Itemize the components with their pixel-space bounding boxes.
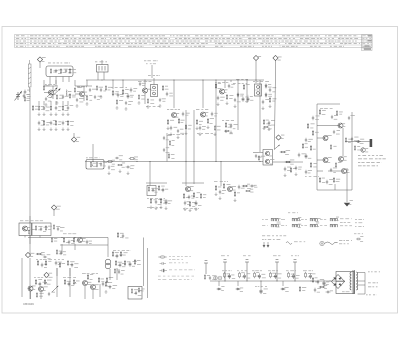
wire (43, 80, 45, 86)
wire (144, 80, 146, 88)
transistor Q17 (82, 281, 87, 286)
wire (282, 281, 284, 286)
bus (power distribution) (210, 280, 345, 282)
resistor R29 (226, 94, 228, 100)
junction (255, 79, 256, 80)
wire (336, 281, 345, 283)
junction (112, 79, 113, 80)
capacitor C3 (23, 94, 26, 99)
resistor R21 (162, 85, 164, 91)
switch legend text (340, 218, 344, 221)
junction (173, 79, 174, 80)
switch contacts S1b row A (292, 218, 299, 221)
wire (43, 101, 45, 105)
component values (82, 272, 86, 275)
title block row text (58, 42, 62, 45)
test point TP4 (71, 137, 76, 142)
transistor Q9 (output 1) (338, 123, 343, 128)
wire (84, 286, 86, 299)
title block row text (338, 37, 340, 40)
Q1 label (45, 83, 47, 86)
component values (147, 206, 150, 209)
wire (69, 268, 71, 297)
component values (34, 276, 36, 279)
capacitor C1 (55, 69, 57, 73)
wire (364, 273, 366, 295)
note: output stage text (358, 154, 360, 157)
test point TP3 (273, 55, 278, 60)
title block row text (230, 35, 232, 38)
resistor R110 (114, 268, 115, 274)
capacitor C40 (255, 154, 257, 158)
resistor R88 (239, 272, 241, 278)
transistor Q16 (38, 287, 43, 292)
wire (109, 269, 111, 280)
capacitor C41 (284, 167, 286, 172)
ground (76, 104, 79, 107)
wire (75, 93, 79, 95)
title block row text (30, 40, 32, 43)
legend text line 3 (169, 269, 172, 272)
component values (233, 82, 236, 85)
switch contacts S1c row A (310, 218, 317, 221)
wire (273, 161, 304, 163)
capacitor C73 (129, 262, 132, 267)
transistor Q7 (AF preamp) (185, 187, 190, 192)
capacitor C76 (243, 273, 246, 278)
title block row text (16, 35, 19, 38)
capacitor C111 (109, 285, 111, 289)
wire (317, 159, 323, 161)
title block row text (66, 45, 68, 48)
ground (219, 197, 222, 200)
resistor R46 (160, 198, 162, 204)
capacitor C31 (247, 97, 250, 102)
ground (344, 203, 349, 206)
resistor R113 (168, 153, 169, 159)
wire (38, 101, 40, 105)
resistor R87 (224, 272, 226, 278)
capacitor C7 (62, 95, 64, 99)
wire (29, 216, 31, 223)
wire (67, 101, 69, 105)
title block row text (95, 45, 97, 48)
wire (55, 77, 57, 85)
transistor Q15 (28, 286, 33, 291)
transistor Q6 (limiter) (219, 89, 224, 94)
capacitor C30 (242, 97, 245, 102)
wire (103, 72, 105, 80)
capacitor C72 (119, 263, 121, 268)
resistor R91 (288, 272, 290, 278)
component values (146, 105, 148, 108)
wire (185, 110, 187, 162)
title block row text (195, 35, 198, 38)
switch contacts S1d row B (330, 224, 337, 227)
capacitor C37 (115, 157, 119, 159)
wire (253, 151, 263, 153)
wire (259, 80, 261, 152)
wire (149, 162, 151, 186)
wire (74, 80, 76, 86)
ground (147, 105, 150, 108)
rectifier box (336, 272, 354, 294)
junction (224, 280, 225, 281)
ground (185, 132, 188, 135)
capacitor C16 (127, 94, 130, 99)
ground (268, 128, 271, 131)
switch legend title (288, 212, 290, 215)
capacitor C48 (195, 201, 198, 206)
wire (345, 141, 370, 143)
wire (107, 238, 109, 258)
resistor R70 (37, 260, 39, 266)
wire (amp right rail) (351, 112, 353, 190)
ground (43, 113, 46, 116)
capacitor C65 (55, 261, 57, 266)
resistor R27 (214, 125, 215, 131)
switch label (262, 224, 265, 227)
mains label (339, 239, 342, 242)
resistor R74 (35, 279, 37, 285)
resistor R102 (73, 237, 75, 243)
capacitor C84 (317, 280, 319, 285)
ground (230, 131, 233, 134)
junction (246, 79, 247, 80)
capacitor C33 (262, 100, 264, 105)
switch label (262, 218, 264, 221)
arrow symbol (263, 242, 269, 247)
resistor R5 (56, 94, 57, 100)
values (252, 270, 254, 273)
resistor R39 (129, 158, 135, 160)
wire (52, 86, 54, 91)
resistor R42 (285, 161, 291, 163)
ground (119, 170, 122, 173)
wire (62, 77, 64, 83)
transistor Q4 (IF amp 2) (171, 113, 176, 118)
switch contacts S1c row B (310, 224, 317, 227)
title block row text (16, 40, 19, 43)
ground (62, 128, 65, 131)
title block row text (64, 40, 67, 43)
diode D2 (265, 84, 267, 89)
component values (236, 78, 240, 81)
capacitor C23 (182, 112, 184, 117)
resistor R95 (312, 277, 314, 283)
bus (audio signal line) (85, 161, 263, 163)
resistor R15 (32, 105, 34, 111)
ground (215, 193, 218, 196)
capacitor C11 (38, 121, 40, 126)
driver box (32, 223, 51, 236)
mains plug P1 (320, 241, 324, 245)
resistor R17 (122, 89, 124, 95)
resistor R13 (55, 120, 57, 126)
wire (101, 60, 103, 65)
title block row text (248, 37, 252, 40)
ground (62, 113, 65, 116)
component values (183, 207, 185, 210)
wire (52, 95, 54, 100)
ground (125, 107, 128, 110)
capacitor C104 (57, 227, 59, 231)
resistor R19 (138, 94, 139, 100)
junction (202, 79, 203, 80)
wire (39, 236, 41, 238)
preamp pair box (263, 150, 273, 166)
capacitor C62 (40, 227, 42, 231)
resistor R66 (28, 230, 29, 235)
capacitor C113 (163, 148, 165, 152)
values (303, 270, 307, 273)
title block row text (282, 45, 285, 48)
wire (317, 189, 352, 191)
wire (317, 137, 323, 139)
capacitor C105 (122, 234, 124, 239)
resistor R78 (106, 277, 108, 283)
capacitor C77 (258, 273, 261, 278)
legend text line 1b (169, 258, 171, 261)
ground (234, 105, 237, 108)
wire (220, 162, 222, 187)
title block row text (175, 37, 177, 40)
IF alignment note (144, 60, 146, 63)
ground (55, 113, 58, 116)
capacitor C50 (238, 185, 240, 190)
resistor R83 (124, 260, 126, 266)
potentiometer VR2 (44, 279, 47, 285)
resistor R30 (243, 84, 245, 90)
title block row text (16, 45, 18, 48)
ground (263, 127, 266, 130)
resistor R85 (131, 288, 132, 294)
module U1 label (48, 62, 51, 65)
capacitor C4 (45, 97, 47, 101)
resistor R82 (115, 260, 117, 266)
capacitor C83 (326, 291, 331, 294)
ground (295, 173, 298, 176)
ground (38, 128, 41, 131)
capacitor C28 (228, 84, 230, 89)
legend circled plus (214, 276, 222, 280)
ground (159, 104, 162, 107)
wire (73, 133, 75, 137)
wire (317, 125, 338, 127)
wire (358, 293, 365, 295)
resistor R76 (36, 292, 37, 298)
wire (143, 238, 145, 287)
title block row text (170, 35, 172, 38)
component values (305, 175, 307, 178)
component values (54, 258, 56, 261)
junction (329, 280, 330, 281)
wire (260, 281, 262, 288)
wire (53, 210, 55, 216)
resistor R32 (225, 122, 227, 128)
note line 3 (358, 161, 360, 164)
diode D6 (281, 288, 286, 290)
wire (275, 61, 276, 150)
ground (67, 128, 70, 131)
Q6 label (215, 81, 217, 84)
resistor R43 (148, 186, 149, 192)
junction (74, 237, 75, 238)
transistor Q10 (driver 2) (323, 136, 328, 141)
junction (215, 161, 216, 162)
capacitor C99 (298, 153, 300, 158)
capacitor C110 (118, 270, 120, 274)
ground (138, 101, 141, 104)
ground (189, 209, 192, 212)
capacitor C63 (43, 256, 47, 258)
component values (168, 133, 172, 136)
resistor R69 (36, 253, 42, 255)
resistor R50 (200, 193, 202, 199)
wire (55, 80, 57, 86)
wire (317, 103, 340, 105)
wire (237, 80, 239, 130)
resistor R98 (302, 143, 304, 149)
trimmer RT1 (223, 260, 227, 282)
title block row text (240, 45, 243, 48)
module U1 (FM tuner unit) (46, 66, 73, 77)
resistor R6 (74, 87, 75, 93)
switch legend text 2 (355, 225, 357, 228)
resistor R18 (116, 99, 117, 105)
capacitor C27 (217, 96, 219, 101)
legend symbol oval (160, 256, 166, 258)
Q4 label (167, 108, 169, 111)
title block row text (282, 35, 285, 38)
wire (153, 78, 155, 85)
capacitor C58 (348, 116, 350, 120)
mains cord (325, 242, 338, 244)
trimmer RT2 (245, 260, 249, 282)
capacitor C49 (219, 190, 221, 195)
junction (310, 280, 311, 281)
wire (29, 226, 31, 244)
capacitor C67 (39, 282, 41, 287)
ground (196, 127, 199, 130)
transistor Q12 (output 3) (338, 157, 343, 162)
values (237, 270, 239, 273)
ground (184, 208, 187, 211)
wire (ground drop) (346, 168, 348, 202)
capacitor C68 (68, 282, 70, 287)
wire (75, 85, 92, 87)
resistor R72 (59, 262, 61, 268)
transistor Q19 (77, 238, 82, 243)
wire (86, 80, 88, 86)
resistor R108 (105, 85, 106, 91)
ground (150, 206, 153, 209)
transistor Q3 (IF amp 1) (142, 88, 147, 93)
capacitor C6 (89, 88, 91, 92)
resistor R112 (169, 140, 170, 146)
switch label (320, 224, 322, 227)
resistor R41 (280, 151, 286, 153)
capacitor C32 (269, 88, 271, 93)
volume control VR1 box (86, 160, 104, 170)
wire (21, 268, 23, 297)
resistor R31 (269, 97, 271, 103)
ground (116, 106, 119, 109)
capacitor C57 (333, 130, 335, 134)
component values (147, 197, 149, 200)
wire (24, 236, 26, 238)
terminal label (366, 294, 368, 297)
resistor R1 (50, 68, 51, 74)
junction (149, 161, 150, 162)
test point TP6 (25, 252, 30, 257)
transformer T3 (interstage) (105, 259, 111, 269)
wire (83, 96, 85, 101)
component values (197, 132, 199, 135)
capacitor C10 (67, 106, 69, 111)
IF transformer T2 (ratio det) (255, 84, 262, 96)
ground (284, 174, 287, 177)
capacitor C14 (24, 90, 27, 95)
title block row text (98, 42, 101, 45)
junction (220, 161, 221, 162)
capacitor C64 (41, 263, 43, 268)
C61 label (354, 233, 356, 236)
ground (207, 126, 210, 129)
ground (195, 208, 198, 211)
title block row text (185, 45, 188, 48)
resistor R53 (234, 191, 236, 197)
title block row text (325, 35, 327, 38)
capacitor C81 (259, 288, 262, 294)
ground (165, 207, 168, 210)
title block row text (135, 40, 137, 43)
wire (246, 80, 248, 103)
resistor R58 (312, 130, 314, 136)
capacitor C71 (116, 254, 118, 259)
resistor R81 (120, 251, 122, 257)
resistor R96 (24, 96, 25, 102)
transistor Q13 (341, 169, 346, 174)
wire (44, 92, 48, 94)
ground (100, 95, 103, 98)
wire (68, 77, 70, 83)
title block row text (125, 35, 128, 38)
box labels (20, 220, 23, 223)
values (255, 285, 257, 288)
potentiometer VR1 (90, 162, 93, 168)
resistor R79 (87, 274, 89, 280)
ground (234, 199, 237, 202)
Q2 label (77, 86, 80, 89)
wire (61, 244, 63, 254)
capacitor C13 (62, 121, 64, 126)
resistor R26 (207, 118, 209, 124)
wire (97, 72, 99, 80)
junction (193, 161, 194, 162)
title block row text (325, 40, 327, 43)
wire (146, 182, 167, 184)
resistor R23 (178, 118, 180, 124)
resistor R75 (64, 279, 66, 285)
bridge rectifier D7-D10 (332, 275, 345, 289)
filter FL1 label (95, 61, 97, 64)
title block row text (330, 45, 332, 48)
capacitor C54 (305, 154, 308, 159)
capacitor C17 (130, 88, 133, 93)
switch legend text (340, 221, 343, 224)
junction (259, 161, 260, 162)
